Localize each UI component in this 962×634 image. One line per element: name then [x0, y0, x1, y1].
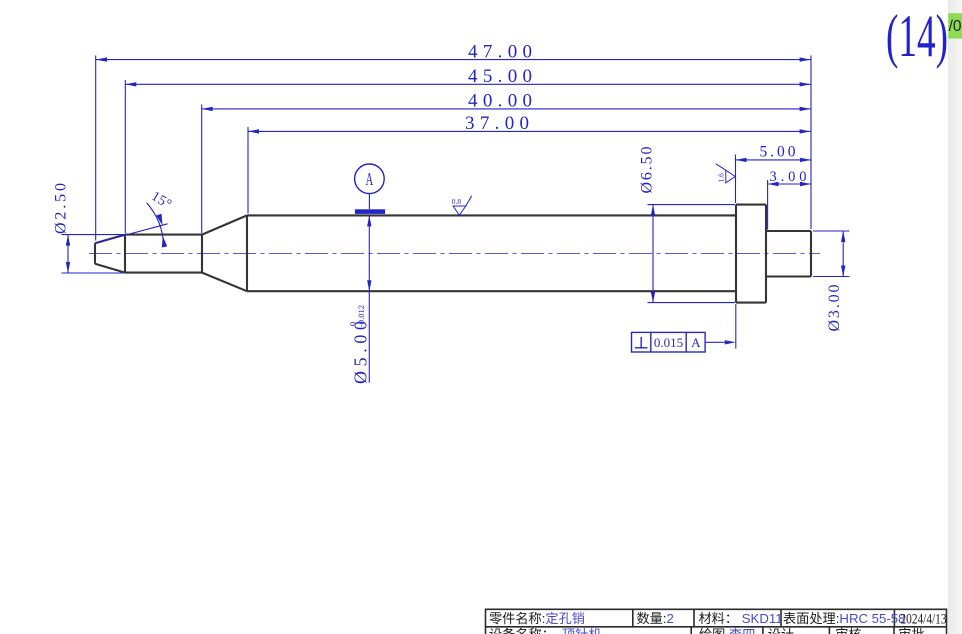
svg-text:设计: 设计: [768, 627, 794, 634]
angle 15 degrees: [95, 203, 168, 246]
dimension dia 6.50: [648, 205, 736, 303]
svg-text:-0.012: -0.012: [356, 305, 366, 327]
dimension dia 3.00: [813, 231, 850, 277]
svg-text:材料： SKD11: 材料： SKD11: [699, 611, 783, 626]
svg-text:Ø3.00: Ø3.00: [826, 285, 843, 332]
svg-text:/0: /0: [949, 18, 962, 35]
svg-text:2024/4/13: 2024/4/13: [901, 612, 947, 628]
dimension dia 5.00 with tolerance: [368, 215, 370, 382]
svg-text:审核: 审核: [835, 627, 861, 634]
svg-text:审批: 审批: [898, 627, 924, 634]
flange outline: [736, 205, 766, 303]
dimension 37.00: [248, 127, 811, 214]
dimension 45.00: [125, 80, 810, 233]
svg-text:零件名称:定孔销: 零件名称:定孔销: [489, 611, 585, 626]
datum A: [355, 164, 386, 214]
dimension 47.00: [96, 56, 811, 241]
svg-text:0: 0: [348, 322, 358, 326]
svg-text:(14): (14): [886, 3, 948, 69]
centerline: [89, 253, 820, 255]
svg-text:Ø5.00: Ø5.00: [351, 321, 371, 384]
feature control frame perpendicularity 0.015 A: [632, 332, 706, 352]
roughness symbol 1.6: [716, 164, 736, 183]
FCF leader: [705, 341, 727, 343]
svg-text:1.6: 1.6: [717, 173, 726, 183]
svg-text:3.00: 3.00: [770, 169, 807, 185]
pin taper and main body outline: [202, 215, 736, 291]
svg-text:数量:2: 数量:2: [637, 611, 674, 626]
svg-text:5.00: 5.00: [760, 143, 796, 160]
svg-text:设备名称：: 设备名称：: [489, 626, 555, 634]
svg-text:Ø2.50: Ø2.50: [53, 183, 70, 234]
svg-text:0.8: 0.8: [452, 197, 462, 206]
svg-text:绘图 李四: 绘图 李四: [699, 627, 755, 634]
svg-text:A: A: [691, 335, 701, 350]
dimension 3.00: [768, 180, 811, 230]
svg-text:表面处理:HRC 55-58: 表面处理:HRC 55-58: [783, 611, 905, 626]
tolerance 0/-0.012: [348, 305, 367, 327]
svg-text:0.015: 0.015: [654, 335, 683, 350]
dimension 5.00: [736, 155, 812, 204]
pin tip chamfer and small cylinder outline: [95, 235, 202, 273]
svg-text:A: A: [366, 169, 374, 189]
svg-text:顶针机: 顶针机: [562, 627, 602, 634]
stub outline: [766, 231, 811, 277]
dimension dia 2.50: [62, 235, 125, 273]
dimension 40.00: [202, 105, 811, 234]
svg-text:Ø6.50: Ø6.50: [639, 147, 656, 194]
title block: [486, 609, 947, 634]
green badge /0: [948, 13, 962, 38]
roughness symbol 0.8: [453, 196, 472, 216]
